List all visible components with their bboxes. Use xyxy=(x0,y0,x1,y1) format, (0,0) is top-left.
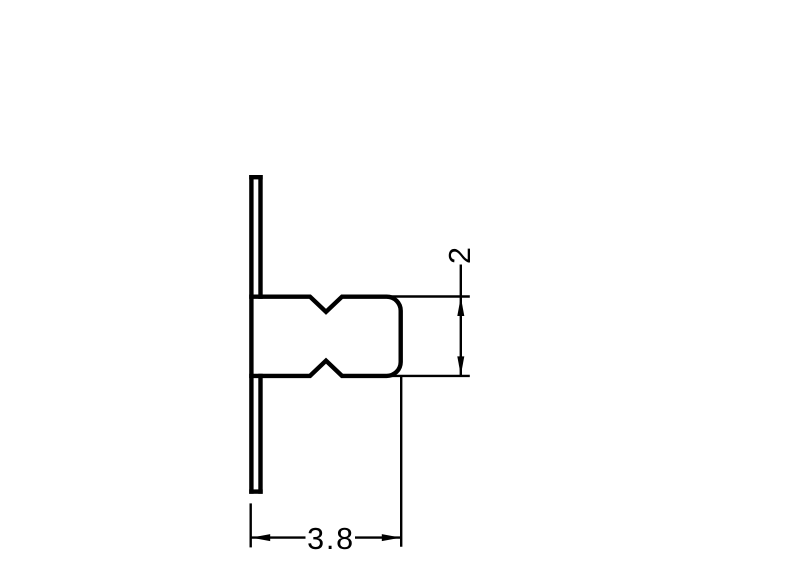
profile cross-section outline (thick lines) xyxy=(251,177,400,491)
dimension 3.8: extension line right xyxy=(400,376,402,547)
dimension 2: dimension line xyxy=(460,265,462,376)
dimension 3.8: extension line left xyxy=(249,503,251,547)
svg-text:3.8: 3.8 xyxy=(307,522,355,556)
dimension 2: lower arrowhead xyxy=(457,356,464,375)
dimension 2: extension line bottom xyxy=(390,375,470,377)
strip top cap xyxy=(251,175,260,179)
strip right edge upper segment xyxy=(258,177,262,297)
dimension 2: extension line top xyxy=(390,295,470,297)
strip right edge lower segment xyxy=(258,376,262,492)
strip left edge xyxy=(249,177,253,491)
dimension 2: upper arrowhead xyxy=(457,297,464,316)
dimension 3.8: right arrowhead xyxy=(382,534,401,541)
dimension 3.8: dimension line right segment xyxy=(355,536,401,538)
svg-text:2: 2 xyxy=(443,247,477,264)
bone-shaped profile body outline xyxy=(251,297,400,376)
dimension 3.8: dimension line left segment xyxy=(251,536,305,538)
dimension 3.8: left arrowhead xyxy=(251,534,270,541)
strip bottom cap xyxy=(251,489,260,493)
